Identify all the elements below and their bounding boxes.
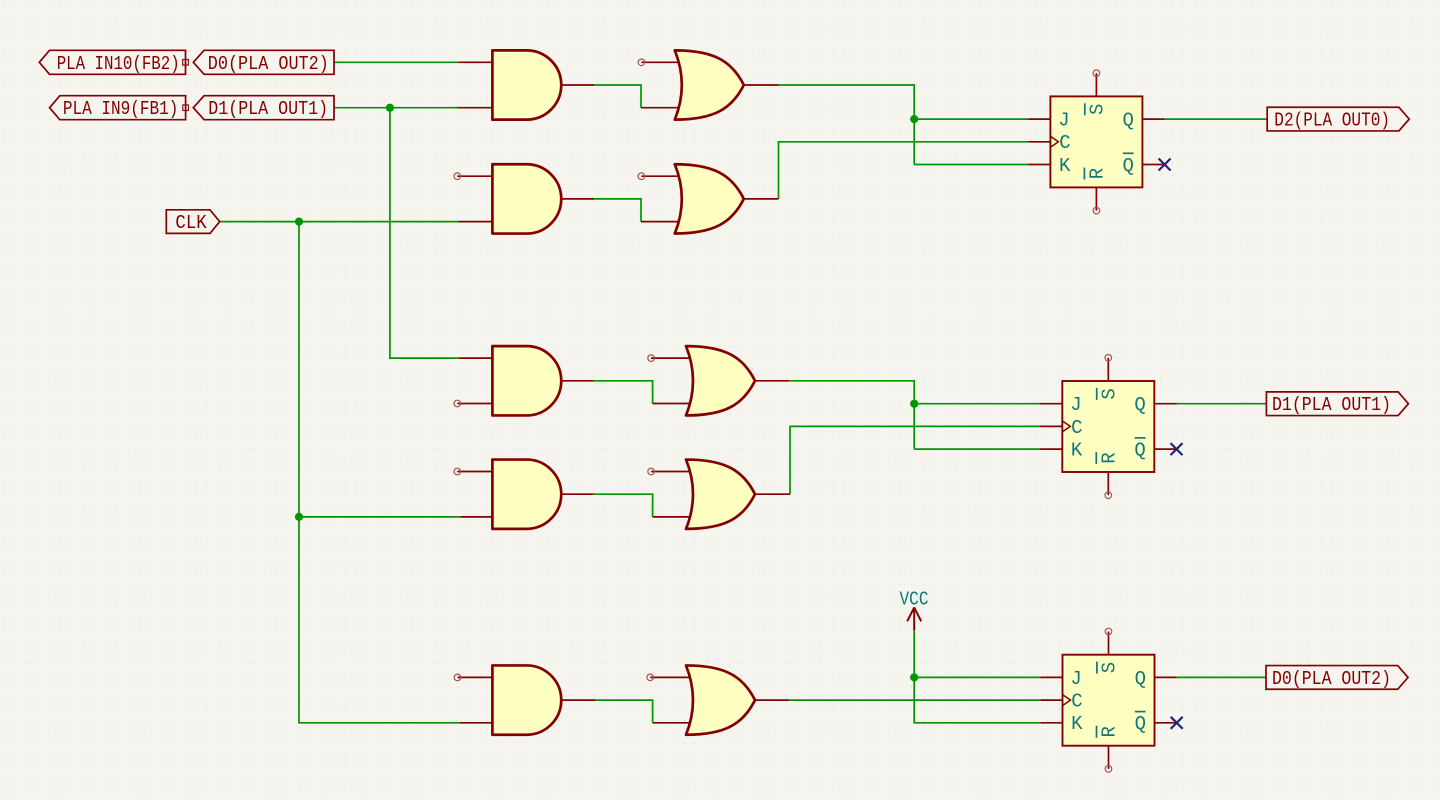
svg-text:PLA IN9(FB1): PLA IN9(FB1) xyxy=(63,98,178,120)
svg-text:D1(PLA OUT1): D1(PLA OUT1) xyxy=(208,98,328,120)
svg-text:CLK: CLK xyxy=(175,212,207,234)
svg-text:D2(PLA OUT0): D2(PLA OUT0) xyxy=(1274,110,1390,132)
svg-text:PLA IN10(FB2): PLA IN10(FB2) xyxy=(57,53,180,75)
svg-text:D1(PLA OUT1): D1(PLA OUT1) xyxy=(1272,394,1391,416)
svg-text:VCC: VCC xyxy=(900,589,929,611)
svg-text:D0(PLA OUT2): D0(PLA OUT2) xyxy=(1272,668,1391,690)
svg-text:D0(PLA OUT2): D0(PLA OUT2) xyxy=(208,53,329,75)
